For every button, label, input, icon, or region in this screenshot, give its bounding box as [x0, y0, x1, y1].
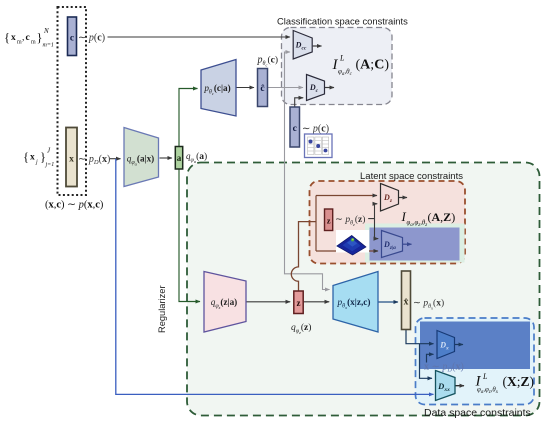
regularizer region box (green dashed) — [187, 163, 540, 416]
input dataset dotted box — [58, 7, 87, 195]
svg-text:(A,Z): (A,Z) — [428, 210, 456, 224]
svg-text:∼ p(c): ∼ p(c) — [302, 124, 329, 135]
bar z (encoded latent) — [294, 291, 303, 314]
label {x_j} dataset — [23, 147, 54, 169]
wire z->p_theta_x — [304, 301, 330, 303]
label {x_m,c_m} dataset — [4, 27, 54, 49]
svg-text:j: j — [35, 160, 38, 166]
svg-text:∼ p(c): ∼ p(c) — [78, 33, 105, 44]
encoder q_phi_a(a|x) — [124, 128, 159, 187]
svg-text:Data space constraints: Data space constraints — [424, 407, 531, 419]
discriminator D_z|a — [382, 231, 403, 258]
wire z prior into D_z|a — [375, 219, 379, 239]
svg-text:z: z — [327, 216, 331, 226]
arrow out D_x — [455, 344, 463, 346]
data space constraints box — [416, 318, 535, 405]
label I(A;C) — [332, 54, 390, 78]
wire c->Dcc — [108, 36, 291, 38]
discriminator D_xx — [436, 371, 456, 401]
svg-text:φa,φz,θx: φa,φz,θx — [477, 387, 499, 395]
icon latent prior surface — [336, 230, 369, 255]
arrow out D_xx — [456, 385, 465, 387]
svg-text:Latent space constraints: Latent space constraints — [360, 171, 463, 182]
wire q_phi_z->z — [247, 301, 291, 303]
svg-text:c: c — [70, 34, 74, 44]
svg-text:(A;C): (A;C) — [356, 58, 390, 73]
svg-text:,: , — [22, 33, 24, 43]
svg-text:ĉ: ĉ — [260, 84, 264, 94]
wire x->q_phi_a — [110, 158, 121, 160]
svg-text:{: { — [23, 150, 29, 164]
svg-text:x: x — [69, 155, 74, 165]
label I(X;Z) — [475, 372, 535, 395]
wire p_D(x)->D_x — [427, 354, 434, 362]
svg-text:a: a — [177, 153, 182, 163]
arrow out D_z|a — [403, 243, 412, 245]
decoder p_theta_x(x|z,c) — [333, 272, 378, 333]
arrow out D_c — [325, 87, 334, 89]
svg-text:c: c — [26, 33, 30, 43]
svg-text:x: x — [11, 33, 16, 43]
wire x_hat branch->D_xx — [420, 344, 433, 379]
arrow out D_cc — [313, 45, 322, 47]
discriminator D_c — [307, 75, 325, 101]
wire x (blue) to D_xx — [116, 159, 434, 395]
svg-text:L: L — [482, 372, 488, 381]
bar a (attribute code) — [175, 147, 182, 170]
svg-text:Classification space constrain: Classification space constraints — [277, 16, 408, 27]
svg-text:L: L — [339, 54, 345, 63]
wire x_hat->D_x — [406, 330, 434, 344]
svg-text:x: x — [30, 153, 35, 163]
wire c_hat->D_c (gray) — [268, 87, 304, 89]
wire c sample->D_c — [295, 98, 304, 107]
discriminator D_cc — [293, 31, 312, 60]
label I(A,Z) — [401, 209, 456, 228]
wire a->p_theta_c (green elbow) — [179, 89, 198, 147]
wire z->latent box (brown, with hop) — [291, 222, 316, 291]
svg-text:m=1: m=1 — [43, 43, 54, 49]
wire latent bottom into D_z|a — [316, 250, 378, 252]
svg-text:x̂: x̂ — [404, 297, 409, 308]
bar x_hat (reconstruction) — [402, 271, 411, 330]
wire z prior into D_z — [368, 204, 377, 219]
svg-text:Regularizer: Regularizer — [157, 285, 167, 333]
wire latent C feed — [315, 196, 317, 252]
svg-text:x ∼ pD(x): x ∼ pD(x) — [424, 362, 464, 374]
mint frame around latent blue rectangle — [365, 224, 465, 263]
discriminator D_x — [437, 331, 455, 359]
bar c (prior sample, middle) — [290, 107, 300, 147]
wire q_phi_a->a — [160, 157, 173, 159]
bar x (data sample, left) — [66, 128, 77, 187]
arrow out D_z — [399, 197, 407, 199]
bar c (prior sample, top) — [68, 17, 77, 56]
latent blue rectangle — [370, 228, 460, 261]
svg-text:c: c — [293, 124, 297, 134]
svg-text:z: z — [297, 298, 301, 308]
wire c_hat down to p_theta_x (gray) — [285, 88, 330, 290]
data blue rectangle — [420, 322, 530, 370]
bar z (prior sample, latent box) — [325, 209, 333, 231]
wire latent top into D_z — [316, 195, 377, 197]
icon class prior grid — [305, 134, 333, 158]
svg-text:(X;Z): (X;Z) — [503, 374, 535, 389]
wire a->q_phi_z (green regularizer path) — [179, 169, 200, 302]
decoder p_theta_c(c|a) — [201, 60, 236, 117]
discriminator D_z — [381, 184, 399, 212]
classification space constraints box — [282, 28, 393, 105]
wire p_theta_c->c_hat — [237, 87, 255, 89]
wire branch up to D_cc (gray) — [285, 52, 291, 88]
svg-text:m: m — [31, 40, 36, 46]
encoder q_phi_z(z|a) — [204, 272, 246, 333]
svg-text:(x,c) ∼ p(x,c): (x,c) ∼ p(x,c) — [45, 200, 104, 211]
latent space constraints box — [310, 181, 466, 264]
svg-text:j=1: j=1 — [45, 162, 55, 168]
bar c_hat (predicted class) — [258, 69, 268, 107]
wire p_theta_x->x_hat — [379, 301, 399, 303]
svg-text:{: { — [4, 31, 10, 45]
svg-text:N: N — [43, 27, 49, 35]
